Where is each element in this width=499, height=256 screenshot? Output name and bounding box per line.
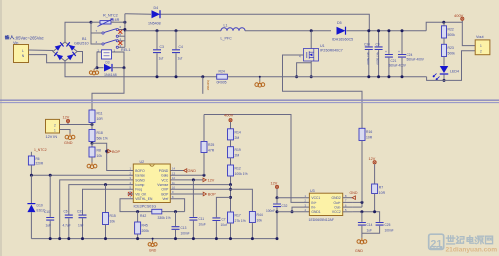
svg-text:100nF: 100nF (181, 232, 190, 236)
svg-text::85Vac~265Vac: :85Vac~265Vac (15, 36, 44, 41)
svg-text:100nF: 100nF (385, 228, 394, 232)
bridge rectifier B1 GBU510 (53, 37, 89, 61)
svg-text:Vsense: Vsense (157, 183, 168, 187)
svg-text:R19: R19 (235, 148, 241, 152)
wire 12V input to R11 R18 junction (60, 124, 93, 126)
svg-text:C6: C6 (64, 209, 68, 213)
svg-text:47R: 47R (208, 149, 215, 153)
svg-text:R15: R15 (110, 214, 116, 218)
junction Isense-R6 (30, 174, 33, 177)
wire source kelvin leg (297, 63, 312, 77)
svg-text:L1: L1 (224, 23, 228, 27)
svg-text:C11: C11 (199, 217, 205, 221)
bottom ground rail (31, 238, 277, 240)
junction OVP crossing (229, 188, 232, 191)
svg-text:200k: 200k (142, 229, 150, 233)
wire relay common vertical (124, 14, 126, 48)
junction VCC1 node (276, 196, 279, 199)
wire main rail relay to L1 (125, 30, 221, 32)
power port 12V input (63, 115, 70, 124)
ground symbol relay coil (89, 66, 98, 75)
resistor R17 27k 1% (228, 212, 246, 239)
junction relay output (123, 28, 126, 32)
net label GND at GND2 (350, 191, 358, 200)
junction gate-R25 (203, 174, 206, 177)
resistor R22 500k (442, 22, 456, 44)
junction R45 top (136, 210, 139, 213)
junction cap bank bottoms (367, 75, 403, 78)
svg-text:1_NTC2: 1_NTC2 (34, 148, 47, 152)
svg-text:D5: D5 (337, 21, 342, 25)
power port 400V output (454, 13, 464, 22)
svg-text:Isense: Isense (206, 80, 210, 90)
svg-text:IN-: IN- (311, 206, 315, 210)
wire L to bridge (29, 49, 54, 52)
wire Vout return (427, 51, 476, 81)
junction C7 tee (229, 196, 232, 199)
svg-text:4n7 500V: 4n7 500V (366, 52, 370, 65)
wire VCC 12V (178, 179, 203, 181)
label REL1 (121, 48, 131, 52)
svg-text:U3: U3 (310, 189, 315, 193)
wire coil drive to R11 (92, 68, 124, 110)
wire source to return rail (310, 61, 312, 77)
no-connect mark contact 1 (118, 30, 122, 34)
junction NTC output node (123, 21, 126, 24)
svg-text:500k: 500k (448, 51, 456, 55)
svg-text:PGND: PGND (159, 169, 169, 173)
svg-text:R44: R44 (257, 213, 263, 217)
connector Vin (AC input) (5, 36, 43, 63)
svg-text:100k 1%: 100k 1% (235, 172, 248, 176)
svg-text:BOFO: BOFO (135, 169, 145, 173)
junction bridge-top node (90, 21, 93, 24)
resistor R16 10R gate resistor (359, 128, 373, 140)
svg-text:Out-: Out- (334, 206, 340, 210)
junction Vsense tap (229, 183, 232, 186)
junction R7 bottom (373, 210, 376, 213)
svg-text:1uf: 1uf (159, 57, 164, 61)
svg-text:Isense: Isense (135, 174, 145, 178)
resistor R45 200k (135, 212, 150, 239)
svg-text:SGND: SGND (135, 178, 145, 182)
svg-text:Vin: Vin (13, 41, 18, 45)
svg-text:R12: R12 (235, 167, 241, 171)
svg-text:10k: 10k (257, 219, 263, 223)
svg-text:10R: 10R (97, 117, 104, 121)
capacitor C10 1uF (44, 175, 54, 238)
svg-text:L: L (22, 49, 24, 53)
svg-text:1ED0605N12AF: 1ED0605N12AF (309, 218, 335, 222)
svg-text:C7: C7 (222, 217, 226, 221)
wire L1 to drain node (245, 30, 331, 32)
wire Out+ Out- tied (352, 201, 363, 207)
svg-text:GND: GND (350, 191, 358, 195)
svg-text:C25: C25 (385, 223, 391, 227)
svg-text:C4: C4 (179, 45, 183, 49)
capacitor C6 4.7uF (63, 209, 73, 238)
resistor R8 10k (89, 143, 102, 158)
resistor R42 330k 1% (140, 209, 185, 220)
diode D10 ES1C (27, 175, 46, 238)
svg-text:330k 1%: 330k 1% (158, 216, 171, 220)
junction C11 top (192, 178, 195, 181)
svg-text:IDH16S60C5: IDH16S60C5 (332, 37, 353, 41)
svg-text:2: 2 (480, 50, 482, 54)
svg-text:LED4: LED4 (450, 69, 459, 73)
net label 1_NTC2 (31, 148, 46, 156)
diode D4 1N5408 (148, 6, 161, 25)
junction coil cathode (123, 66, 126, 69)
capacitor C13 100nF (172, 212, 190, 239)
svg-text:10R: 10R (379, 191, 386, 195)
inductor L1 L_PFC (221, 23, 246, 40)
capacitor C32 100nF (266, 198, 288, 239)
wire SGND to rail (60, 180, 128, 239)
svg-text:220R: 220R (36, 162, 44, 166)
svg-text:100nF: 100nF (266, 209, 275, 213)
junction MOSFET drain node (310, 29, 313, 32)
svg-text:12V: 12V (208, 179, 215, 183)
capacitor C25 100nF (362, 223, 394, 234)
relay REL1 contact 2 (91, 33, 125, 48)
ground symbol bottom rail (148, 238, 157, 253)
capacitor C7 10uf (212, 197, 230, 238)
junction GND1 to C32 (276, 210, 279, 213)
svg-text:4.7uF: 4.7uF (63, 223, 71, 227)
junction Isense tap (201, 75, 204, 78)
svg-text:C21: C21 (391, 59, 397, 63)
capacitor C9 film (375, 31, 383, 77)
svg-text:Freq: Freq (135, 188, 142, 192)
svg-text:C31: C31 (77, 209, 83, 213)
wire D5 cathode to cap bank (347, 30, 427, 32)
svg-text:R11: R11 (97, 112, 103, 116)
svg-text:Vref: Vref (162, 197, 168, 201)
junction R22 top (442, 21, 445, 24)
junction C13 top (174, 210, 177, 213)
diode D3 1N4148 coil clamp (97, 60, 124, 77)
capacitor C11 10uF (189, 180, 205, 239)
resistor R11 10R (89, 110, 103, 125)
junction C10 top (49, 174, 52, 177)
svg-text:12V: 12V (271, 181, 278, 185)
svg-text:VCC2: VCC2 (332, 210, 341, 214)
junction R15 top (104, 183, 107, 186)
svg-text:10k: 10k (97, 154, 103, 158)
junction C14 top (360, 210, 363, 213)
wire Vref link to node (178, 199, 185, 212)
svg-text:R42: R42 (140, 214, 146, 218)
watermark 21dianyuan logo (429, 234, 444, 250)
net label GND at PGND (178, 169, 197, 174)
watermark 21dianyuan cjk text (446, 236, 492, 244)
relay REL1 contact 1 (91, 22, 125, 37)
net label BOP at pin9 (178, 192, 217, 197)
svg-text:R17: R17 (235, 214, 241, 218)
resistor R12 100k 1% (228, 165, 248, 185)
power port 12V for VCC2 (369, 157, 377, 184)
junction 12V node (91, 123, 94, 126)
wire R16 to driver output (361, 141, 363, 203)
svg-text:10k: 10k (110, 220, 116, 224)
svg-text:27k 1%: 27k 1% (235, 219, 246, 223)
wire IN- and GND1 (277, 207, 309, 213)
svg-text:D10: D10 (37, 203, 43, 207)
svg-text:1uf: 1uf (178, 57, 183, 61)
junction C4 top (175, 29, 178, 32)
svg-text:+: + (385, 50, 387, 54)
svg-text:R8: R8 (97, 149, 101, 153)
svg-text:VCC: VCC (161, 178, 169, 182)
svg-text:IPZ60R040C7: IPZ60R040C7 (320, 48, 343, 52)
svg-text:1N5408: 1N5408 (148, 21, 161, 25)
svg-text:400V: 400V (454, 13, 464, 18)
svg-text:R25: R25 (208, 143, 214, 147)
svg-text:L_PFC: L_PFC (221, 36, 233, 40)
svg-text:R23: R23 (448, 46, 454, 50)
power port 400V divider (224, 112, 234, 129)
svg-text:R6: R6 (36, 157, 40, 161)
svg-text:GND: GND (149, 249, 157, 253)
svg-text:VB_OK: VB_OK (135, 192, 147, 196)
junction C3 top (156, 29, 159, 32)
power port 12V for driver U3 (271, 181, 279, 197)
svg-text:GND1: GND1 (311, 210, 320, 214)
ground symbol primary return (255, 76, 265, 87)
resistor R7 10R (372, 184, 386, 212)
ground symbol R8 (87, 157, 97, 169)
IC U2 ICE3PCS01G (128, 160, 178, 209)
svg-text:VCC1: VCC1 (311, 196, 320, 200)
svg-text:OVP: OVP (161, 188, 169, 192)
net label 12V at VCC (203, 178, 215, 183)
svg-text:GBU510: GBU510 (74, 42, 89, 46)
svg-text:12V: 12V (369, 157, 376, 161)
svg-text:560uF 400V: 560uF 400V (407, 58, 425, 62)
capacitor C3 1uf (153, 31, 164, 77)
capacitor C30 film (364, 31, 373, 77)
svg-text:R14: R14 (235, 130, 241, 134)
wire Vsense to divider tap (178, 184, 231, 186)
svg-text:4n7 500V: 4n7 500V (376, 52, 380, 65)
wire VBTHL_EN to R42 (120, 199, 152, 212)
resistor R19 2M (228, 147, 241, 165)
junction C21 top (387, 29, 390, 32)
svg-text:4R: 4R (115, 18, 120, 22)
svg-text:GND: GND (64, 141, 73, 145)
relay coil REL1 (97, 49, 124, 68)
svg-text:2: 2 (54, 123, 56, 127)
svg-text:B1: B1 (82, 37, 87, 41)
svg-text:12V: 12V (63, 115, 70, 119)
junction C24 top (401, 29, 404, 32)
svg-text:BOP: BOP (208, 193, 216, 197)
resistor R25 47R gate series (201, 115, 215, 176)
svg-text:R16: R16 (366, 130, 372, 134)
junction rail taps (49, 237, 279, 240)
net label Isense stub (203, 77, 210, 94)
svg-text:C9: C9 (376, 42, 380, 46)
svg-text:10uF: 10uF (199, 223, 206, 227)
svg-text:1: 1 (54, 129, 56, 133)
svg-text:GND: GND (355, 249, 363, 253)
svg-text:R22: R22 (448, 28, 454, 32)
svg-text:BOP: BOP (161, 192, 169, 196)
MOSFET U1 IPZ60R040C7 (299, 31, 343, 61)
capacitor C31 1nF (77, 209, 87, 238)
svg-text:2M: 2M (235, 154, 240, 158)
ground 12V input (60, 130, 75, 146)
svg-text:0R005: 0R005 (217, 81, 227, 85)
LED LED4 (433, 66, 459, 80)
svg-text:R7: R7 (379, 186, 383, 190)
wire BOP tap to BOFO pin (92, 143, 128, 170)
wire Gate to R25 (178, 174, 205, 176)
resistor R23 500k (442, 44, 456, 65)
svg-text:U2: U2 (140, 160, 145, 164)
connector Vout (475, 35, 490, 55)
svg-text:D3: D3 (106, 60, 110, 64)
svg-text:C24: C24 (407, 53, 413, 57)
svg-text:12V IN: 12V IN (46, 135, 58, 139)
wire OVP to R44 (178, 189, 253, 211)
svg-text:1nF: 1nF (78, 223, 84, 227)
IC U3 gate driver 1ED0605N12AF (305, 189, 353, 222)
junction C9 top (377, 29, 380, 32)
junction C4 bottom (175, 75, 178, 78)
svg-text:400V: 400V (224, 112, 234, 117)
svg-text:R18: R18 (97, 131, 103, 135)
svg-text:Vout: Vout (476, 35, 485, 39)
wire Freq net (83, 189, 128, 214)
svg-text:500k: 500k (448, 33, 456, 37)
wire divider tap down to R17 (230, 185, 232, 212)
capacitor C4 1uf (172, 31, 183, 77)
capacitor C14 1uF (358, 212, 373, 238)
svg-text:2M: 2M (235, 136, 240, 140)
svg-text:R45: R45 (142, 224, 148, 228)
resistor R6 220R (28, 156, 43, 175)
wire N to bridge (29, 52, 83, 63)
watermark 21dianyuan url (446, 246, 498, 253)
junction C3 bottom (156, 75, 159, 78)
wire gate drive to U3 IN+ (204, 115, 309, 203)
wire VCC1 to U3 (277, 197, 309, 199)
svg-text:BOP: BOP (112, 150, 120, 154)
svg-text:IN+: IN+ (311, 201, 316, 205)
svg-text:GND: GND (188, 169, 197, 173)
return rail right segment (227, 76, 426, 78)
wire rail up to 400V node (426, 22, 475, 45)
wire VCC2 rail (352, 212, 379, 222)
svg-text:Gate: Gate (161, 174, 168, 178)
junction C30 top (367, 29, 370, 32)
net label BOP at divider (105, 149, 120, 154)
svg-text:Out+: Out+ (333, 201, 340, 205)
diode D5 IDH16S60C5 (332, 21, 353, 41)
capacitor C24 560uF 400V (398, 31, 425, 77)
svg-text:10R: 10R (366, 135, 373, 139)
section divider bus line (0, 100, 499, 102)
svg-text:C3: C3 (160, 45, 164, 49)
svg-text:VBTHL_EN: VBTHL_EN (135, 197, 153, 201)
wire Icomp net (69, 185, 128, 215)
svg-text:C30: C30 (364, 42, 370, 46)
svg-text:U1: U1 (320, 44, 325, 48)
svg-text:56k 1%: 56k 1% (97, 137, 108, 141)
no-connect mark contact 2 (118, 41, 122, 45)
svg-text:1uF: 1uF (367, 228, 373, 232)
svg-text:1uF: 1uF (46, 223, 52, 227)
svg-text:1: 1 (480, 44, 482, 48)
resistor R44 10k (249, 212, 262, 239)
ground symbol driver (355, 238, 367, 253)
svg-text:R24: R24 (219, 69, 225, 73)
resistor R15 10k (103, 185, 116, 239)
resistor R14 2M (228, 129, 241, 147)
wire gate to driver (283, 55, 363, 128)
svg-text:C10: C10 (44, 210, 50, 214)
svg-text:21dianyuan.com: 21dianyuan.com (446, 246, 498, 253)
junction BOP divider tap (91, 142, 94, 145)
resistor R18 56k 1% (89, 125, 108, 144)
shunt resistor R24 0R005 (217, 69, 228, 84)
svg-text:560uF 400V: 560uF 400V (389, 64, 407, 68)
connector 12V IN (46, 119, 60, 138)
svg-text:+: + (398, 50, 400, 54)
return rail left segment (65, 61, 217, 77)
svg-text:Icomp: Icomp (135, 183, 144, 187)
wire D4 bypass rail to bulk caps (161, 14, 370, 31)
svg-text:R_NTC2: R_NTC2 (103, 14, 118, 18)
svg-text:C32: C32 (282, 204, 288, 208)
thermistor R_NTC2 4R (91, 14, 125, 27)
svg-text:D4: D4 (154, 6, 159, 10)
capacitor C21 560uF 400V (385, 31, 407, 77)
svg-text:C13: C13 (181, 226, 187, 230)
svg-text:C14: C14 (367, 223, 373, 227)
junction source legs (295, 75, 313, 78)
wire top rail to diode D4 (125, 13, 151, 16)
no-connect VB_OK pin (128, 192, 132, 196)
svg-text:10uf: 10uf (221, 223, 227, 227)
wire bridge plus output up (65, 22, 91, 42)
svg-text:GND2: GND2 (332, 196, 341, 200)
wire Isense net to U2 pin2 (31, 174, 127, 176)
junction LED bottom (443, 79, 446, 82)
svg-text:ICE3PCS01G: ICE3PCS01G (134, 205, 157, 209)
